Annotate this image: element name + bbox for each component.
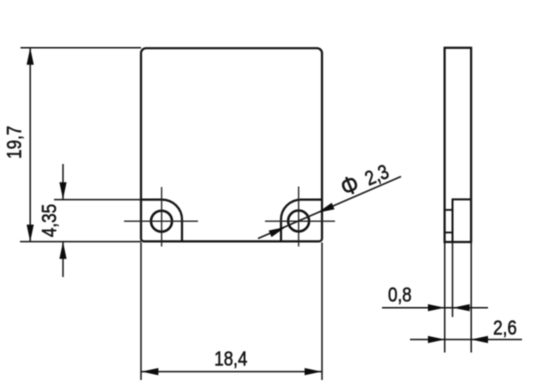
arrow 0,8 right bbox=[453, 304, 470, 311]
dimension line 18,4 bbox=[141, 371, 322, 373]
extension line 0,8 / 2,6 left bbox=[444, 242, 446, 353]
centerline right hole vertical bbox=[298, 187, 300, 247]
arrow 2,6 left bbox=[428, 336, 445, 343]
centerline right hole horizontal bbox=[265, 220, 335, 222]
boss left bbox=[141, 200, 182, 242]
svg-text:4,35: 4,35 bbox=[38, 204, 61, 237]
side view step vertical edge bbox=[452, 199, 454, 242]
arrow 0,8 left bbox=[428, 304, 445, 311]
dimension line 2,6 bbox=[410, 339, 522, 341]
extension line 2,6 right bbox=[470, 242, 472, 353]
plate outline (front view) bbox=[141, 48, 322, 241]
label 0,8 bbox=[388, 283, 412, 306]
side view hole edge lower bbox=[445, 232, 453, 234]
dimension leader 4,35 upper bbox=[62, 164, 64, 199]
hole right bbox=[288, 211, 309, 232]
arrow 4,35 up bbox=[59, 242, 66, 259]
arrow diameter upper-right bbox=[318, 203, 335, 213]
label diameter 2,3 bbox=[336, 157, 392, 202]
extension line 18,4 left bbox=[140, 243, 142, 381]
svg-text:18,4: 18,4 bbox=[214, 347, 247, 370]
arrow diameter lower-left bbox=[269, 227, 286, 237]
extension line top (19,7) bbox=[21, 47, 142, 49]
centerline left hole horizontal bbox=[124, 220, 198, 222]
centerline left hole vertical bbox=[161, 187, 163, 247]
extension line boss top (4,35) bbox=[54, 199, 141, 201]
svg-text:19,7: 19,7 bbox=[3, 126, 26, 159]
extension line 18,4 right bbox=[321, 243, 323, 381]
label 2,6 bbox=[493, 316, 517, 339]
side view outline bbox=[445, 48, 472, 242]
dimension line 19,7 bbox=[29, 48, 31, 241]
arrow 18,4 right bbox=[305, 368, 322, 375]
leader line diameter 2,3 bbox=[258, 177, 401, 239]
side view hole edge upper bbox=[445, 209, 453, 211]
hole left bbox=[151, 211, 172, 232]
label 19,7 bbox=[3, 126, 26, 159]
arrow 4,35 down bbox=[59, 182, 66, 199]
arrow 19,7 bottom bbox=[27, 225, 34, 242]
label 4,35 bbox=[38, 204, 61, 237]
side view step horizontal edge bbox=[452, 198, 471, 200]
label 18,4 bbox=[214, 347, 247, 370]
boss right bbox=[281, 200, 322, 242]
extension line bottom left (19,7 / 4,35) bbox=[20, 241, 141, 243]
extension line 0,8 middle bbox=[452, 242, 454, 317]
svg-text:0,8: 0,8 bbox=[388, 283, 412, 306]
svg-text:2,6: 2,6 bbox=[493, 316, 517, 339]
arrow 18,4 left bbox=[141, 368, 158, 375]
arrow 2,6 right bbox=[471, 336, 488, 343]
arrow 19,7 top bbox=[27, 48, 34, 65]
dimension line 0,8 bbox=[382, 307, 488, 309]
dimension leader 4,35 lower bbox=[62, 242, 64, 277]
